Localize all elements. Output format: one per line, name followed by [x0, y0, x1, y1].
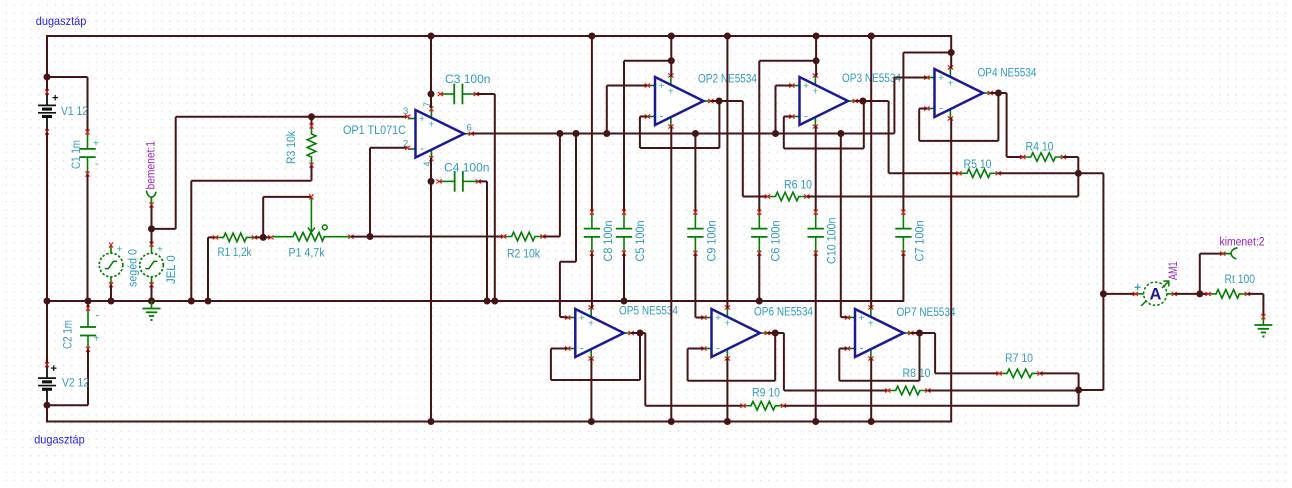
- wire OP2 out to R6: [711, 100, 743, 102]
- svg-text:JEL 0: JEL 0: [166, 255, 178, 284]
- svg-text:+: +: [668, 86, 674, 98]
- svg-text:OP7 NE5534: OP7 NE5534: [897, 307, 957, 319]
- junction: [484, 298, 491, 305]
- svg-text:-: -: [716, 341, 720, 355]
- wire OP6 pin4 down: [726, 358, 728, 423]
- junction OP3 out: [859, 98, 866, 105]
- svg-text:-: -: [660, 109, 664, 123]
- svg-text:OP6 NE5534: OP6 NE5534: [754, 307, 814, 319]
- junction C3 left: [428, 91, 435, 98]
- ground right: [1261, 314, 1265, 319]
- svg-text:+: +: [868, 318, 874, 330]
- wire JEL to mid rail: [151, 285, 153, 301]
- svg-text:OP1 TL071C: OP1 TL071C: [343, 125, 406, 137]
- svg-text:+: +: [93, 139, 99, 150]
- junction R2 tap: [556, 130, 563, 137]
- wire OP5 input feed: [575, 134, 577, 262]
- junction OP7 out: [916, 330, 923, 337]
- svg-text:+: +: [157, 245, 163, 256]
- svg-text:C1 1m: C1 1m: [71, 140, 83, 169]
- svg-text:C6 100n: C6 100n: [770, 221, 782, 262]
- svg-text:R9 10: R9 10: [752, 388, 780, 400]
- junction: [724, 418, 731, 425]
- svg-text:-: -: [580, 341, 584, 355]
- wire R6 to node: [807, 196, 1079, 198]
- svg-text:+: +: [579, 312, 585, 324]
- capacitor C6 100n: [758, 213, 760, 229]
- resistor R3 10k: [311, 117, 313, 127]
- wire OP6 out to R8: [767, 332, 784, 334]
- wire to kimenet terminal: [1199, 254, 1201, 294]
- junction: [188, 298, 195, 305]
- wire branch to C5: [624, 60, 671, 62]
- wire node to ammeter column: [1078, 172, 1103, 174]
- wire OP3 out to R5: [855, 100, 888, 102]
- wire to ammeter: [1103, 293, 1135, 295]
- resistor R1 1,2k: [216, 233, 253, 242]
- junction branch: [948, 49, 955, 56]
- op-amp OP6 NE5534: [704, 308, 767, 359]
- svg-text:R5 10: R5 10: [964, 159, 992, 171]
- resistor R6 10: [768, 192, 806, 201]
- junction OP5 tap: [573, 130, 580, 137]
- wire OP4 feedback: [997, 93, 999, 141]
- svg-text:-: -: [95, 158, 99, 170]
- svg-text:AM1: AM1: [1168, 262, 1180, 281]
- generator seged: [99, 253, 123, 277]
- capacitor C4 100n: [440, 180, 455, 182]
- wire OP1 output row: [471, 133, 894, 135]
- capacitor C8 100n: [591, 213, 593, 229]
- capacitor C5 100n: [623, 213, 625, 229]
- wire V1 top: [46, 35, 48, 93]
- capacitor C3 100n: [441, 93, 454, 95]
- svg-text:+: +: [51, 363, 57, 375]
- resistor R2 10k: [504, 232, 542, 241]
- wire branch to C7: [903, 52, 951, 54]
- wire C2 bottom: [87, 349, 89, 405]
- wire R8 to node: [928, 390, 1079, 392]
- svg-text:-: -: [804, 109, 808, 123]
- battery V1: [46, 93, 48, 106]
- wire OP7 out to R7: [911, 332, 935, 334]
- junction: [491, 298, 498, 305]
- wire OP1 pin7 supply: [430, 35, 432, 108]
- svg-text:V1 12: V1 12: [61, 106, 88, 118]
- resistor R5 10: [960, 169, 998, 178]
- wire OP3 pin7 supply: [815, 35, 817, 77]
- svg-text:+: +: [724, 318, 730, 330]
- wire C9 to OP6 input: [694, 253, 696, 317]
- junction R7/R8/R9 node: [1075, 387, 1082, 394]
- op-amp OP1 TL071C: [408, 109, 471, 160]
- wire ammeter to kimenet node: [1174, 293, 1208, 295]
- svg-text:-: -: [939, 101, 943, 115]
- wire R2 to output row: [543, 236, 560, 238]
- op-amp OP4 NE5534: [927, 68, 990, 119]
- svg-text:+: +: [812, 86, 818, 98]
- wire C8 to OP5 pin7: [591, 253, 593, 308]
- junction kimenet node: [1196, 290, 1203, 297]
- junction: [668, 418, 675, 425]
- op-amp OP7 NE5534: [847, 308, 910, 359]
- svg-text:-: -: [420, 141, 424, 155]
- wire C5 to mid rail: [623, 253, 625, 301]
- svg-text:C5 100n: C5 100n: [635, 221, 647, 262]
- wire OP3 input feed: [775, 86, 777, 134]
- wire OP4 pin4 down: [950, 118, 952, 423]
- wire OP6 feedback: [774, 333, 776, 381]
- wire C6 to mid rail: [758, 253, 760, 301]
- battery V2: [46, 365, 48, 378]
- junction: [108, 298, 115, 305]
- junction OP6 out: [772, 330, 779, 337]
- resistor R4 10: [1024, 153, 1063, 162]
- svg-text:3: 3: [403, 106, 408, 117]
- svg-text:2: 2: [403, 139, 408, 150]
- junction node R1/P1: [260, 234, 267, 241]
- junction V2 bottom: [44, 402, 51, 409]
- wire bemenet down: [151, 205, 153, 244]
- wire node to output: [1079, 389, 1104, 391]
- junction: [1100, 290, 1107, 297]
- generator JEL: [140, 253, 164, 277]
- wire bottom -12V rail: [47, 421, 951, 423]
- junction OP7 tap: [837, 130, 844, 137]
- svg-text:+: +: [803, 80, 809, 92]
- wire OP2 input feed: [606, 86, 608, 134]
- capacitor C9 100n: [694, 213, 696, 229]
- wire R1-P1: [255, 236, 272, 238]
- ground left: [151, 301, 153, 309]
- wire C10 to bottom rail: [815, 253, 817, 422]
- resistor Rt 100: [1209, 290, 1247, 299]
- junction OP4 out: [995, 90, 1002, 97]
- svg-text:-: -: [860, 341, 864, 355]
- junction: [205, 298, 212, 305]
- wire R7 to node: [1040, 372, 1079, 374]
- wire OP3 pin4 to C10: [815, 126, 817, 212]
- svg-text:+: +: [859, 312, 865, 324]
- junction: [621, 298, 628, 305]
- wire OP7 pin4 down: [870, 358, 872, 423]
- svg-text:C2 1m: C2 1m: [63, 320, 75, 349]
- junction: [812, 418, 819, 425]
- junction OP3 tap: [772, 130, 779, 137]
- svg-text:C9 100n: C9 100n: [706, 221, 718, 262]
- wire seged to mid rail: [110, 285, 112, 301]
- svg-text:dugasztáp: dugasztáp: [36, 14, 87, 28]
- junction C4 left: [428, 178, 435, 185]
- wire OP5 pin4 down: [590, 358, 592, 423]
- svg-text:dugasztáp: dugasztáp: [34, 433, 85, 447]
- wire OP7 feedback: [919, 333, 921, 381]
- junction: [588, 33, 595, 40]
- potentiometer P1 4,7k: [272, 232, 351, 241]
- wire R1 left: [207, 237, 209, 301]
- wire OP3 feedback: [863, 101, 865, 149]
- wire bemenet to OP1+: [152, 228, 176, 230]
- svg-text:C4 100n: C4 100n: [444, 163, 490, 175]
- wire OP7 pin7 long supply: [870, 35, 872, 308]
- junction: [724, 33, 731, 40]
- wire OP1 pin4 down: [430, 158, 432, 423]
- wire wiper riser: [262, 197, 264, 238]
- wire OP2 pin4 down: [670, 126, 672, 423]
- junction C9 tap: [692, 130, 699, 137]
- svg-text:C3 100n: C3 100n: [445, 74, 491, 86]
- junction: [148, 298, 155, 305]
- svg-text:+: +: [52, 93, 58, 105]
- svg-text:C10 100n: C10 100n: [827, 218, 839, 265]
- ammeter AM1: [1135, 293, 1144, 295]
- terminal bemenet: [146, 191, 156, 198]
- junction: [44, 74, 51, 81]
- wire Rt to ground: [1247, 293, 1263, 295]
- resistor R8 10: [889, 386, 928, 395]
- wire mid 0V rail: [47, 300, 903, 302]
- svg-text:P1 4,7k: P1 4,7k: [289, 248, 325, 260]
- svg-text:segéd 0: segéd 0: [128, 249, 140, 287]
- svg-text:+: +: [947, 78, 953, 90]
- svg-text:OP5 NE5534: OP5 NE5534: [619, 306, 679, 318]
- svg-text:R2 10k: R2 10k: [507, 249, 540, 261]
- wire C9 feed from row: [694, 134, 696, 212]
- svg-text:R3 10k: R3 10k: [286, 131, 298, 164]
- wire R4 to node: [1063, 156, 1078, 158]
- junction: [813, 33, 820, 40]
- wire C1 to mid rail: [87, 174, 89, 301]
- wire node to R2: [370, 236, 504, 238]
- junction R3 top: [308, 113, 315, 120]
- wire OP7 input feed: [840, 134, 842, 318]
- wire C8 supply feed: [591, 35, 593, 212]
- resistor R9 10: [744, 401, 783, 410]
- wire to C1: [47, 76, 88, 78]
- wire C3 right to mid rail: [476, 93, 495, 95]
- junction OP2 tap: [603, 130, 610, 137]
- junction P1/R2/OP1- node: [367, 233, 374, 240]
- junction top rail: [428, 33, 435, 40]
- wire OP5 feedback: [639, 333, 641, 380]
- svg-text:+: +: [938, 72, 944, 84]
- junction branch: [813, 57, 820, 64]
- svg-text:V2 12: V2 12: [62, 378, 89, 390]
- junction: [588, 418, 595, 425]
- svg-text:R6 10: R6 10: [784, 180, 812, 192]
- wire C7 to mid rail end: [902, 253, 904, 302]
- junction OP2 out: [716, 98, 723, 105]
- svg-text:A: A: [1149, 286, 1161, 304]
- terminal kimenet: [1220, 252, 1225, 256]
- junction: [868, 418, 875, 425]
- wire V2 to bottom rail: [46, 404, 48, 423]
- wire OP4 input feed: [893, 78, 895, 134]
- svg-text:R7 10: R7 10: [1005, 353, 1033, 365]
- wire R9 to node: [783, 405, 1078, 407]
- svg-text:+: +: [94, 334, 100, 345]
- wire OP6 pin7 long supply: [726, 35, 728, 308]
- wire OP4 pin7 supply: [950, 35, 952, 68]
- svg-text:+: +: [117, 245, 123, 256]
- wire OP4 out to R4: [990, 92, 1006, 94]
- junction: [668, 33, 675, 40]
- capacitor C7 100n: [902, 213, 904, 229]
- svg-text:OP4 NE5534: OP4 NE5534: [978, 68, 1038, 80]
- wire P1 to node: [351, 236, 371, 238]
- junction: [868, 33, 875, 40]
- wire V1- to V2+: [46, 132, 48, 365]
- wire OP5 out to R9: [631, 332, 645, 334]
- junction mid: [44, 298, 51, 305]
- svg-text:-: -: [96, 310, 100, 322]
- svg-text:R8 10: R8 10: [903, 368, 931, 380]
- svg-text:+: +: [588, 318, 594, 330]
- svg-text:+: +: [419, 113, 425, 125]
- svg-text:+: +: [659, 80, 665, 92]
- svg-text:+: +: [715, 312, 721, 324]
- svg-text:R1 1,2k: R1 1,2k: [218, 247, 252, 259]
- op-amp OP5 NE5534: [568, 308, 631, 359]
- wire OP2 feedback: [718, 101, 720, 148]
- svg-text:C7 100n: C7 100n: [914, 221, 926, 262]
- svg-text:Rt 100: Rt 100: [1225, 274, 1256, 286]
- junction OP5 out: [637, 330, 644, 337]
- resistor R7 10: [1000, 369, 1039, 378]
- op-amp OP3 NE5534: [792, 76, 855, 127]
- junction R4/R5 node: [1075, 170, 1082, 177]
- wire R5 to node: [998, 172, 1078, 174]
- svg-text:6: 6: [467, 123, 472, 134]
- junction bottom rail: [428, 418, 435, 425]
- wire OP2 pin7 supply: [670, 35, 672, 77]
- svg-text:C8 100n: C8 100n: [603, 221, 615, 262]
- op-amp OP2 NE5534: [647, 76, 710, 127]
- wire R3 to mid rail: [311, 165, 313, 181]
- capacitor C2: [87, 301, 89, 308]
- wire +12V top rail: [47, 35, 951, 37]
- capacitor C1: [87, 133, 89, 149]
- junction: [756, 298, 763, 305]
- junction bemenet node: [148, 225, 155, 232]
- svg-text:kimenet:2: kimenet:2: [1220, 237, 1265, 249]
- wire node to OP1 pin2: [369, 148, 371, 237]
- junction: [85, 298, 92, 305]
- svg-text:+: +: [428, 119, 434, 131]
- svg-text:+: +: [1134, 282, 1141, 294]
- svg-text:bemenet:1: bemenet:1: [146, 141, 158, 190]
- capacitor C10 100n: [815, 213, 817, 229]
- svg-text:R4 10: R4 10: [1026, 142, 1054, 154]
- wire branch to C6: [759, 60, 816, 62]
- junction branch: [668, 57, 675, 64]
- wire C4 right to mid rail: [478, 180, 487, 182]
